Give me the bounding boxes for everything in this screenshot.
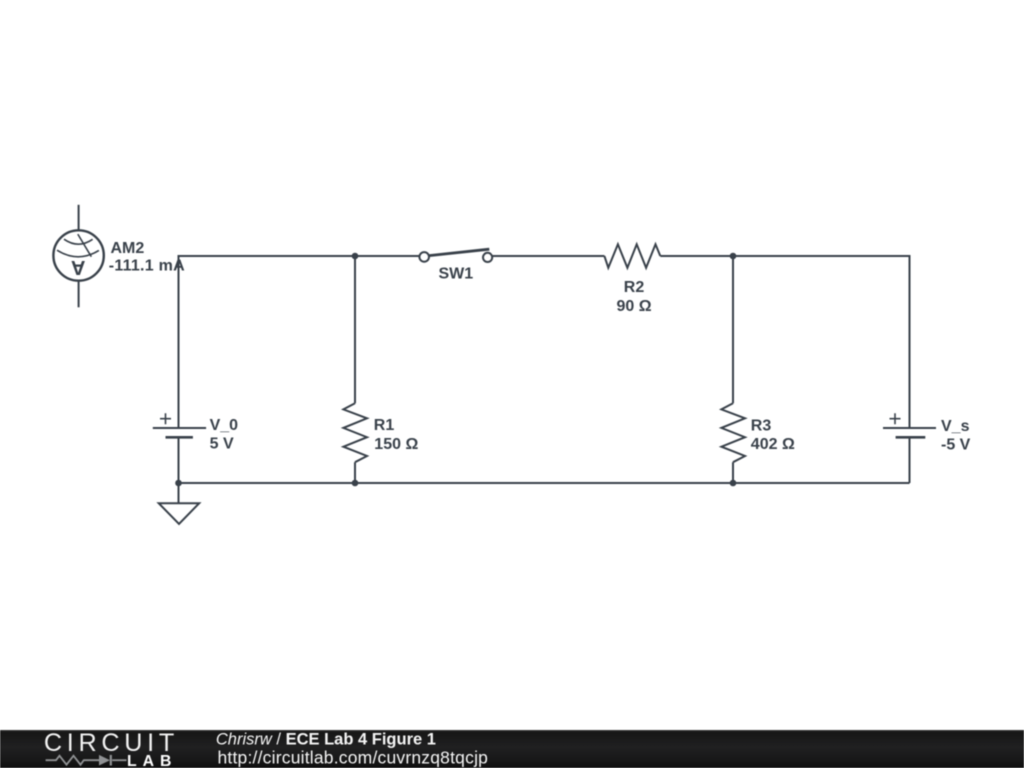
node dot R3 bottom [730,480,737,487]
switch SW1 [419,249,492,262]
wire V_s bottom to bottom rail [909,437,911,483]
node dot R1 top [352,253,359,260]
wire R1 top [354,256,356,403]
wire R3 bottom [732,462,734,483]
node dot ground [175,480,182,487]
svg-text:A: A [71,256,85,278]
resistor R3 [721,403,745,462]
ammeter AM2 [53,205,103,307]
resistor R2 [604,244,660,267]
node dot R1 bottom [352,480,359,487]
svg-text:Chrisrw / ECE Lab 4 Figure 1: Chrisrw / ECE Lab 4 Figure 1 [216,730,436,748]
wire switch to R2 [492,255,604,257]
svg-text:SW1: SW1 [438,266,473,283]
node dot R3 top [730,253,737,260]
wire V_0 bottom to ground [178,437,180,503]
resistor R1 [343,403,367,462]
svg-text:R2: R2 [624,279,645,296]
logo resistor-diode line [46,755,127,766]
battery V_0 [153,413,206,437]
wire top-left corner to switch [179,256,420,428]
wire bottom rail [179,482,910,484]
ammeter letter A (rotated 180) [71,256,85,278]
ground [159,503,200,524]
svg-text:V_s: V_s [941,418,970,435]
wire R2 to top-right corner down to V_s [660,256,909,428]
svg-text:90 Ω: 90 Ω [616,298,651,315]
svg-text:402 Ω: 402 Ω [751,436,795,453]
svg-text:V_0: V_0 [210,417,239,434]
svg-text:AM2: AM2 [111,240,145,257]
svg-text:-111.1 mA: -111.1 mA [109,258,185,275]
svg-text:5 V: 5 V [210,436,234,453]
svg-text:-5 V: -5 V [941,437,971,454]
svg-text:150 Ω: 150 Ω [374,436,418,453]
logo diode triangle [99,755,110,766]
wire R1 bottom [354,462,356,483]
svg-text:http://circuitlab.com/cuvrnzq8: http://circuitlab.com/cuvrnzq8tqcjp [218,747,489,767]
svg-text:LAB: LAB [127,753,177,768]
wire R3 top [732,256,734,403]
svg-text:R3: R3 [751,418,772,435]
svg-text:R1: R1 [374,417,395,434]
battery V_s [883,413,936,437]
